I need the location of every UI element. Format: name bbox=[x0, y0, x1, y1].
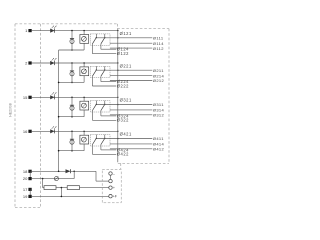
svg-text:Ø411: Ø411 bbox=[153, 136, 164, 141]
resistor R2 bbox=[67, 186, 79, 190]
svg-text:Ø112: Ø112 bbox=[153, 46, 164, 51]
wire input rail ch2 bbox=[32, 62, 118, 64]
diode D2 (suppressor across coil) bbox=[70, 71, 74, 76]
wire unused pole 24 ch3 bbox=[101, 111, 116, 116]
plug pin 4 bbox=[109, 195, 112, 198]
wire coil drop ch2 bbox=[83, 63, 85, 67]
node rail end ch2 bbox=[117, 62, 118, 63]
node rail end ch4 bbox=[117, 131, 118, 132]
svg-text:2: 2 bbox=[25, 61, 28, 66]
terminal strip separator (inner dashed line) bbox=[40, 24, 42, 208]
plug pin 1 bbox=[109, 172, 112, 175]
svg-text:Ø122: Ø122 bbox=[117, 51, 129, 56]
node coil top ch2 bbox=[83, 62, 84, 63]
wire after diode bbox=[71, 170, 97, 172]
relay contact box K2 (dashed) bbox=[90, 66, 110, 77]
wire coil drop ch4 bbox=[83, 131, 85, 135]
wire common coil return bus bbox=[58, 50, 60, 171]
wire input rail ch3 bbox=[32, 96, 118, 98]
node bus to supply bbox=[58, 171, 60, 173]
wire coil bottom ch1 bbox=[83, 43, 85, 50]
node coil branch ch3 bbox=[71, 97, 73, 99]
relay contact box K4 (dashed) bbox=[90, 135, 110, 146]
wire output 11 ch4 bbox=[96, 138, 152, 140]
node COM junction ch4 bbox=[117, 138, 119, 140]
terminal 1 connection point bbox=[28, 29, 31, 32]
wire pin column bus bbox=[117, 29, 119, 163]
svg-text:Ø121: Ø121 bbox=[120, 31, 132, 36]
wire diode branch ch2 bbox=[71, 63, 73, 82]
relay coil K1 bbox=[80, 35, 89, 44]
plug pin 3 bbox=[109, 186, 112, 189]
node diode-to-bus ch2 bbox=[71, 82, 73, 84]
svg-text:16: 16 bbox=[23, 129, 28, 134]
terminal 2 connection point bbox=[28, 61, 31, 64]
svg-text:15: 15 bbox=[23, 95, 28, 100]
wire output 12 ch1 bbox=[110, 47, 152, 49]
wire output 12 ch4 bbox=[110, 148, 152, 150]
wire divider tap bbox=[60, 188, 62, 197]
svg-text:20: 20 bbox=[23, 176, 28, 181]
plug connector box (dashed) bbox=[102, 170, 121, 203]
contact arm K2b bbox=[101, 66, 106, 76]
wire R2 to plug pin 3 bbox=[80, 187, 109, 189]
wire unused pole 22 ch4 bbox=[92, 145, 116, 155]
wire diode branch ch4 bbox=[71, 131, 73, 150]
wire coil bottom ch2 bbox=[83, 76, 85, 83]
terminal 15 connection point bbox=[28, 96, 31, 99]
wire unused pole 24 ch2 bbox=[101, 76, 116, 81]
diode D1 (suppressor across coil) bbox=[70, 39, 74, 44]
node COM junction ch3 bbox=[117, 104, 119, 106]
wire coil return link ch1 bbox=[59, 49, 85, 51]
node bus junction bbox=[58, 150, 60, 152]
wire unused pole 22 ch3 bbox=[92, 111, 116, 121]
diode D3 (suppressor across coil) bbox=[70, 105, 74, 110]
svg-text:Ø311: Ø311 bbox=[153, 102, 164, 107]
contact arm K3b bbox=[101, 101, 106, 111]
node coil branch ch2 bbox=[71, 62, 73, 64]
wire coil drop ch1 bbox=[83, 31, 85, 35]
wire coil drop ch3 bbox=[83, 97, 85, 101]
terminal 19 connection point bbox=[28, 195, 31, 198]
node diode-to-bus ch1 bbox=[71, 49, 73, 51]
svg-text:Ø222: Ø222 bbox=[117, 83, 129, 88]
diode D5 polarity protection bbox=[66, 169, 71, 173]
svg-text:Ø321: Ø321 bbox=[120, 98, 132, 103]
svg-text:+: + bbox=[113, 186, 115, 190]
contact arm K1a bbox=[92, 34, 97, 44]
relay contact box K3 (dashed) bbox=[90, 101, 110, 112]
node diode-to-bus ch3 bbox=[71, 116, 73, 118]
node COM junction ch2 bbox=[117, 69, 119, 71]
svg-text:Ø211: Ø211 bbox=[153, 68, 164, 73]
svg-text:Ø421: Ø421 bbox=[120, 132, 132, 137]
wire coil return link ch2 bbox=[59, 81, 85, 83]
module boundary (outer dashed box) bbox=[15, 24, 169, 208]
diode D4 (suppressor across coil) bbox=[70, 139, 74, 144]
wire output 14 ch3 bbox=[110, 109, 152, 111]
wire unused pole 24 ch1 bbox=[101, 44, 116, 49]
node tap on 19 wire bbox=[61, 196, 63, 198]
wire unused pole 22 ch2 bbox=[92, 76, 116, 86]
relay coil K2 bbox=[80, 67, 89, 76]
wire to plug pin 2 bbox=[96, 171, 109, 181]
terminal 16 connection point bbox=[28, 130, 31, 133]
contact arm K2a bbox=[92, 66, 97, 76]
svg-text:Ø312: Ø312 bbox=[153, 113, 165, 118]
LED V1 input indicator bbox=[50, 26, 56, 33]
terminal 18 connection point bbox=[28, 170, 31, 173]
terminal 17 connection point bbox=[28, 188, 31, 191]
relay coil K3 bbox=[80, 101, 89, 110]
wire pin1-pin2 bbox=[110, 175, 112, 179]
wire unused pole 24 ch4 bbox=[101, 145, 116, 150]
wire output 12 ch2 bbox=[110, 80, 152, 82]
suppressor Z1 bbox=[54, 177, 58, 181]
svg-text:1: 1 bbox=[25, 28, 28, 33]
wire supply 19 bbox=[32, 195, 109, 197]
contact arm K4a bbox=[92, 135, 97, 145]
wire output 11 ch1 bbox=[96, 37, 152, 39]
wire output 14 ch4 bbox=[110, 143, 152, 145]
svg-text:18: 18 bbox=[23, 169, 28, 174]
svg-text:HE20/08: HE20/08 bbox=[9, 103, 13, 116]
wire coil return link ch3 bbox=[59, 116, 85, 118]
node coil branch ch1 bbox=[71, 30, 73, 32]
wire coil bottom ch4 bbox=[83, 144, 85, 151]
wire coil bottom ch3 bbox=[83, 110, 85, 117]
LED V4 input indicator bbox=[50, 126, 56, 133]
terminal 20 connection point bbox=[28, 177, 31, 180]
LED V3 input indicator bbox=[50, 92, 56, 99]
LED V2 input indicator bbox=[50, 58, 56, 65]
svg-text:17: 17 bbox=[23, 187, 28, 192]
wire output 11 ch3 bbox=[96, 104, 152, 106]
node rail end ch1 bbox=[117, 30, 118, 31]
wire diode branch ch3 bbox=[71, 97, 73, 116]
svg-text:Ø412: Ø412 bbox=[153, 147, 165, 152]
svg-text:Ø111: Ø111 bbox=[153, 36, 164, 41]
wire supply 18 bbox=[32, 170, 66, 172]
wire R1-R2 bbox=[56, 187, 67, 189]
node bus junction bbox=[58, 116, 60, 118]
wire output 11 ch2 bbox=[96, 69, 152, 71]
jumper 18-20 bbox=[29, 171, 31, 178]
contact arm K3a bbox=[92, 101, 97, 111]
wire output 12 ch3 bbox=[110, 114, 152, 116]
relay contact box K1 (dashed) bbox=[90, 34, 110, 45]
wire output 14 ch2 bbox=[110, 75, 152, 77]
relay coil K4 bbox=[80, 135, 89, 144]
node diode-to-bus ch4 bbox=[71, 150, 73, 152]
node coil branch ch4 bbox=[71, 131, 73, 133]
node COM junction ch1 bbox=[117, 37, 119, 39]
node coil top ch3 bbox=[83, 97, 84, 98]
node zener join bbox=[73, 171, 75, 173]
wire coil return link ch4 bbox=[59, 150, 85, 152]
wire input rail ch4 bbox=[32, 130, 118, 132]
svg-text:Ø221: Ø221 bbox=[120, 63, 132, 68]
svg-text:19: 19 bbox=[23, 194, 28, 199]
resistor R1 bbox=[44, 186, 56, 190]
wire input rail ch1 bbox=[32, 30, 118, 32]
svg-text:Ø422: Ø422 bbox=[117, 152, 129, 157]
svg-text:+F: +F bbox=[113, 195, 118, 199]
node bus junction bbox=[58, 82, 60, 84]
plug pin 2 bbox=[109, 179, 112, 182]
svg-text:–: – bbox=[113, 172, 115, 176]
wire resistor feed bbox=[43, 179, 44, 188]
wire diode branch ch1 bbox=[71, 31, 73, 50]
svg-text:Ø212: Ø212 bbox=[153, 78, 165, 83]
contact arm K1b bbox=[101, 34, 106, 44]
wire zener riser bbox=[73, 171, 75, 178]
node resistor branch bbox=[42, 178, 44, 180]
svg-text:Ø322: Ø322 bbox=[117, 118, 129, 123]
wire unused pole 22 ch1 bbox=[92, 44, 116, 54]
jumper 17-19 bbox=[29, 190, 31, 197]
contact arm K4b bbox=[101, 135, 106, 145]
wire supply 20 bbox=[32, 178, 74, 180]
node divider tap bbox=[61, 187, 63, 189]
node coil top ch4 bbox=[83, 131, 84, 132]
drawing number text (vertical) bbox=[9, 103, 13, 116]
wire output 14 ch1 bbox=[110, 42, 152, 44]
node rail end ch3 bbox=[117, 97, 118, 98]
node coil top ch1 bbox=[83, 30, 84, 31]
